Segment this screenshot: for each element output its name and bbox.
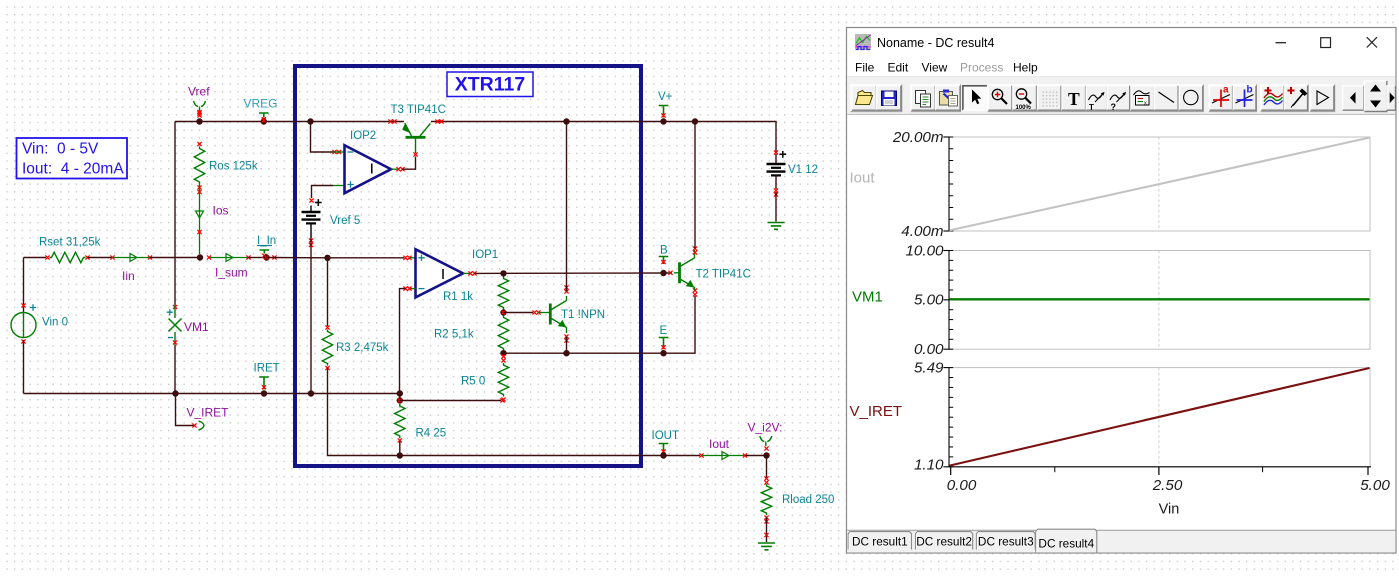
svg-text:Vref 5: Vref 5 xyxy=(330,215,360,227)
wire R5 bottom row xyxy=(400,398,505,402)
pin V+ xyxy=(658,91,673,118)
titlebar close button xyxy=(1367,37,1377,47)
node feedback junction (R4 top) xyxy=(397,390,403,396)
wire Vref5 minus down to IRET rail xyxy=(309,224,313,394)
node V_i2V junction xyxy=(763,452,769,458)
svg-text:Iin: Iin xyxy=(122,269,135,283)
svg-text:R2 5,1k: R2 5,1k xyxy=(434,329,474,341)
svg-text:View: View xyxy=(922,61,948,75)
node T1 collector junction xyxy=(563,118,569,124)
transistor T3 TIP41C xyxy=(388,104,446,153)
net label V_i2V xyxy=(748,421,783,451)
svg-text:0.00: 0.00 xyxy=(947,477,977,494)
svg-text:T2 TIP41C: T2 TIP41C xyxy=(696,269,751,281)
op-amp IOP1 xyxy=(416,249,499,297)
svg-text:I_sum: I_sum xyxy=(215,266,248,280)
svg-text:T: T xyxy=(1068,89,1080,109)
curve Iout (gray ramp) xyxy=(950,138,1370,231)
node IOP2 branch junction xyxy=(307,118,313,124)
XTR117 title label xyxy=(447,72,533,97)
svg-text:VM1: VM1 xyxy=(184,320,209,334)
toolbar button: zoom out 100% xyxy=(1013,86,1037,111)
wire Rload to ground xyxy=(764,518,768,543)
pin I_In xyxy=(257,235,276,258)
wire IOP1 - input feedback xyxy=(400,287,416,394)
svg-text:E: E xyxy=(660,325,668,337)
current arrow Ios xyxy=(196,204,229,219)
toolbar button: save xyxy=(877,86,901,110)
wire I_sum segment (green) xyxy=(207,255,264,259)
current arrow Iin xyxy=(122,254,137,284)
svg-text:10.00: 10.00 xyxy=(905,242,944,259)
svg-text:DC result2: DC result2 xyxy=(916,534,972,548)
net label V_IRET xyxy=(176,394,230,431)
annotation info box "Vin 0-5V / Iout 4-20mA" xyxy=(17,138,128,179)
tab DC result4 (active) xyxy=(1036,529,1097,552)
svg-text:V_i2V:: V_i2V: xyxy=(748,421,783,435)
curve V_IRET (dark red ramp) xyxy=(950,368,1370,466)
node R4 bottom / IOUT rail junction xyxy=(397,452,403,458)
wire IOP2 + input from Vref5 xyxy=(312,186,334,199)
toolbar background xyxy=(847,77,1395,114)
toolbar button: grid (disabled) xyxy=(1038,86,1062,110)
svg-text:2.50: 2.50 xyxy=(1152,477,1183,494)
x axis xyxy=(949,467,1371,475)
node R1/R2/T1 base junction xyxy=(500,309,506,315)
svg-text:Vin 0: Vin 0 xyxy=(42,317,68,329)
toolbar button: copy xyxy=(911,84,961,111)
svg-text:VM1: VM1 xyxy=(852,289,883,306)
node VM1 bottom junction xyxy=(172,390,178,396)
curve VM1 (green 5V) xyxy=(950,298,1370,300)
wire VREG rail to VM1 (vertical x=175) xyxy=(174,122,176,306)
wire I_In into box to R3 node xyxy=(267,255,328,259)
node I_sum junction xyxy=(197,254,203,260)
wire V1 to ground xyxy=(775,192,777,222)
svg-text:Iout: Iout xyxy=(709,437,730,451)
svg-text:x: x xyxy=(1144,101,1147,107)
titlebar maximize button xyxy=(1321,38,1331,48)
resistor R2 5,1k xyxy=(434,316,509,351)
toolbar button: zoom in xyxy=(988,84,1204,111)
resistor Ros 125k xyxy=(194,142,258,184)
window icon xyxy=(855,34,871,50)
svg-text:Ros 125k: Ros 125k xyxy=(209,161,258,173)
svg-text:0.00: 0.00 xyxy=(914,341,944,358)
toolbar button: paste xyxy=(936,86,960,110)
wire R3 node to IOP1 + input xyxy=(328,256,416,260)
wire R3 bottom to IOUT rail xyxy=(328,368,401,456)
voltmeter VM1 xyxy=(167,305,209,345)
resistor R5 0 xyxy=(461,358,509,401)
toolbar nav right button xyxy=(1387,86,1396,110)
toolbar nav spinner button xyxy=(1364,81,1386,112)
toolbar nav left button xyxy=(1343,86,1364,110)
svg-text:5.49: 5.49 xyxy=(914,359,944,376)
svg-text:VREG: VREG xyxy=(244,97,278,111)
tab DC result2 xyxy=(916,532,973,550)
svg-text:1.10: 1.10 xyxy=(914,456,944,473)
node R4/R5 junction xyxy=(397,397,403,403)
plot 3 y labels xyxy=(914,359,944,473)
ground (Rload) xyxy=(758,543,775,550)
svg-text:R3 2,475k: R3 2,475k xyxy=(336,342,389,354)
wire Vin bottom to rail xyxy=(23,340,25,394)
toolbar button: curve legend xyxy=(1131,86,1155,110)
node Vref5-minus junction xyxy=(308,390,314,396)
x axis labels xyxy=(947,477,1391,494)
wire IOP1 output to T2 base xyxy=(463,271,672,275)
wire to Rload xyxy=(764,456,768,485)
toolbar button: cursor b xyxy=(1233,85,1256,111)
resistor R4 25 xyxy=(395,404,447,443)
resistor Rset 31,25k xyxy=(39,237,101,263)
svg-text:Vin: Vin xyxy=(1159,502,1180,518)
svg-text:V_IRET: V_IRET xyxy=(850,403,903,420)
titlebar minimize button xyxy=(1276,42,1287,44)
plot 2 y labels xyxy=(905,242,944,358)
pin VREG xyxy=(244,97,278,125)
svg-text:R4 25: R4 25 xyxy=(416,428,447,440)
wire IOUT rail xyxy=(400,455,700,457)
resistor R1 1k xyxy=(443,277,509,310)
node IOP1 output / R1 junction xyxy=(500,270,506,276)
toolbar button: cursor a xyxy=(1209,84,1257,111)
svg-text:Iout: 4 - 20mA: Iout: 4 - 20mA xyxy=(22,161,124,178)
svg-text:?: ? xyxy=(1111,102,1117,112)
svg-text:R5 0: R5 0 xyxy=(461,376,485,388)
svg-text:b: b xyxy=(1247,85,1253,96)
wire Ios segment (green) with ticks xyxy=(197,184,201,254)
wire top rail right segment to V1 xyxy=(431,122,776,153)
toolbar button: flag xyxy=(1310,84,1335,111)
transistor T2 TIP41C xyxy=(668,246,751,296)
svg-text:IOP1: IOP1 xyxy=(472,249,498,261)
svg-text:DC result4: DC result4 xyxy=(1038,536,1094,550)
tab DC result1 xyxy=(848,532,911,550)
tab DC result3 xyxy=(976,532,1035,550)
wire IOP2 inverting input from top rail xyxy=(311,122,334,153)
battery Vref 5 xyxy=(302,198,361,227)
svg-text:V+: V+ xyxy=(658,91,673,103)
wire Iout segment (green) xyxy=(699,453,766,457)
svg-text:Iout: Iout xyxy=(850,170,876,187)
pin IOUT xyxy=(652,430,679,454)
current arrow I_sum xyxy=(215,254,248,280)
wire R4 top stub xyxy=(399,394,401,401)
toolbar button: pointer (selected) xyxy=(963,86,988,110)
node Vref junction xyxy=(196,118,202,124)
toolbar button: probe dropper xyxy=(1285,86,1308,110)
menu separator xyxy=(848,76,1396,78)
svg-text:DC result1: DC result1 xyxy=(852,534,908,548)
svg-text:Edit: Edit xyxy=(888,61,909,75)
svg-text:4.00m: 4.00m xyxy=(901,223,943,240)
plot 3 (V_IRET) frame xyxy=(943,368,1370,467)
battery V1 12 xyxy=(767,150,819,196)
svg-text:Rload 250: Rload 250 xyxy=(782,494,834,506)
transistor T1 !NPN xyxy=(550,301,605,328)
node T1 emitter junction xyxy=(563,350,569,356)
wire VM1 to bottom rail xyxy=(174,345,176,394)
wire E rail xyxy=(504,296,696,353)
svg-text:5.00: 5.00 xyxy=(1360,477,1390,494)
svg-text:Ios: Ios xyxy=(213,204,229,218)
svg-text:IOP2: IOP2 xyxy=(350,130,376,142)
resistor R3 2,475k xyxy=(322,325,388,370)
node I_In junction xyxy=(263,254,269,260)
wire bottom rail IRET row xyxy=(24,393,401,395)
pin B xyxy=(659,245,669,265)
svg-text:20.00m: 20.00m xyxy=(892,129,944,146)
toolbar button: circle xyxy=(1179,86,1203,110)
svg-text:5.00: 5.00 xyxy=(914,292,944,309)
wire R3 top xyxy=(327,258,329,326)
svg-text:IRET: IRET xyxy=(254,363,280,375)
toolbar button: annotate curve ? xyxy=(1107,86,1129,112)
wire mid rail: Vin corner to Rset xyxy=(24,257,47,259)
toolbar button: add curves xyxy=(1261,84,1309,111)
node IOUT junction xyxy=(660,452,666,458)
resistor Rload 250 xyxy=(761,484,834,524)
node V+ junction xyxy=(660,118,666,124)
wire T1 collector to top rail xyxy=(564,122,568,301)
current arrow Iout xyxy=(709,437,730,460)
svg-text:T1 !NPN: T1 !NPN xyxy=(561,309,605,321)
svg-text:T3 TIP41C: T3 TIP41C xyxy=(391,104,446,116)
op-amp IOP2 xyxy=(332,130,391,193)
voltage source Vin 0 xyxy=(11,303,68,343)
ground (V1) xyxy=(768,223,785,230)
svg-text:DC result3: DC result3 xyxy=(978,534,1034,548)
plot 1 (Iout) frame xyxy=(943,137,1370,231)
tab bar xyxy=(847,530,1395,552)
wire T1 emitter to E rail xyxy=(564,327,568,353)
plot 2 (VM1) frame xyxy=(943,251,1370,350)
svg-text:T: T xyxy=(1089,103,1094,112)
node E junction xyxy=(660,350,666,356)
plot 1 y labels xyxy=(892,129,944,240)
wire T2 collector to top rail xyxy=(694,122,696,249)
toolbar button: line xyxy=(1155,86,1179,110)
svg-text:R1 1k: R1 1k xyxy=(443,291,473,303)
svg-text:V1 12: V1 12 xyxy=(788,164,818,176)
svg-text:100%: 100% xyxy=(1016,105,1032,111)
wire R4 bottom xyxy=(399,441,401,456)
menu bar xyxy=(855,61,1038,75)
svg-text:Process: Process xyxy=(960,61,1003,75)
svg-text:Help: Help xyxy=(1013,61,1038,75)
wire IOP2 output to T3 base xyxy=(391,152,418,171)
svg-text:V_IRET: V_IRET xyxy=(187,406,230,420)
pin IRET xyxy=(254,363,280,390)
svg-text:XTR117: XTR117 xyxy=(455,74,525,96)
wire top rail left segment (Vref/VREG row) xyxy=(175,121,404,123)
wire T1 base from R1/R2 node xyxy=(504,310,550,314)
svg-text:a: a xyxy=(1223,85,1229,96)
XTR117 block outline U1 xyxy=(295,66,641,466)
result window frame xyxy=(847,28,1397,554)
node B junction xyxy=(660,270,666,276)
svg-text:Vin: 0 - 5V: Vin: 0 - 5V xyxy=(22,141,99,158)
pin E xyxy=(659,325,669,349)
node R3/IOP1+ junction xyxy=(324,255,330,261)
svg-text:File: File xyxy=(855,61,875,75)
toolbar button: text T xyxy=(1062,86,1086,110)
svg-text:B: B xyxy=(660,245,668,257)
node T2 collector junction xyxy=(692,118,698,124)
svg-text:Vref: Vref xyxy=(188,85,210,99)
wire Rset to I_sum node (with Iin arrow) xyxy=(88,255,198,259)
wire Vin top (left column) xyxy=(23,258,25,313)
toolbar button: open xyxy=(851,84,902,111)
svg-text:Noname - DC result4: Noname - DC result4 xyxy=(877,36,994,50)
toolbar button: annotate curve T xyxy=(1086,86,1107,112)
net label Vref xyxy=(188,85,210,118)
node IRET junction xyxy=(261,390,267,396)
svg-text:Rset 31,25k: Rset 31,25k xyxy=(39,237,101,249)
node R2/R5/E-row junction xyxy=(500,350,506,356)
svg-text:IOUT: IOUT xyxy=(652,430,679,442)
